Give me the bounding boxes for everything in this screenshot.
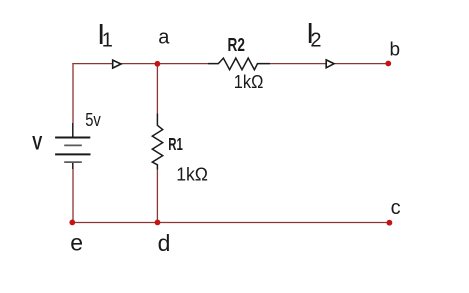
svg-text:R2: R2 [228,35,245,55]
svg-text:1kΩ: 1kΩ [176,164,208,185]
svg-text:d: d [158,230,171,256]
svg-text:a: a [158,27,170,49]
svg-text:e: e [70,230,83,256]
svg-text:b: b [390,40,401,61]
svg-text:R1: R1 [168,134,183,154]
svg-text:5v: 5v [85,110,101,130]
svg-text:2: 2 [310,30,321,52]
svg-text:c: c [391,197,401,219]
svg-text:V: V [32,134,42,155]
svg-text:1kΩ: 1kΩ [234,72,264,92]
svg-text:1: 1 [102,29,113,51]
